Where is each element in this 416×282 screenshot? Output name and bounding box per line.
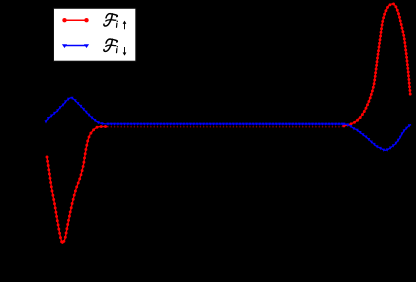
blue curve F_i_down triangle markers xyxy=(45,97,411,152)
legend blue sample markers xyxy=(62,44,89,48)
legend label F_i_down xyxy=(104,39,118,53)
red curve F_i_up line left feature xyxy=(47,127,108,244)
legend red sample line xyxy=(65,19,87,21)
red curve F_i_up circle markers (flat region, mostly occluded) xyxy=(108,126,342,128)
red curve F_i_up line right feature xyxy=(343,4,411,126)
legend red sample markers xyxy=(62,18,66,22)
red curve F_i_up circle markers (features) xyxy=(47,4,410,242)
legend blue sample line xyxy=(65,45,87,47)
legend box xyxy=(54,8,136,61)
down arrow of second label xyxy=(123,47,126,55)
blue curve F_i_down line xyxy=(46,98,411,151)
up arrow of first label xyxy=(123,22,126,30)
legend label F_i_up xyxy=(104,14,118,28)
